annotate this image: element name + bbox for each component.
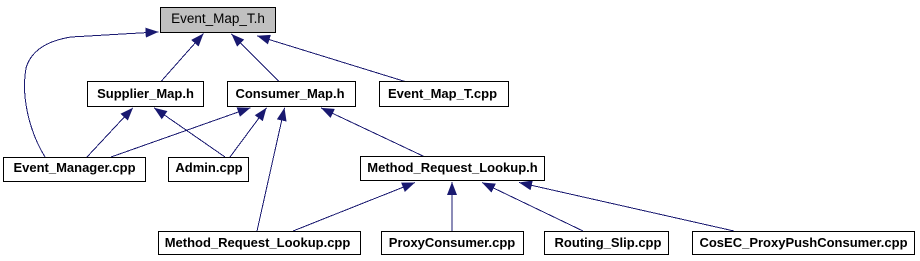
svg-text:Admin.cpp: Admin.cpp: [175, 160, 242, 175]
node ProxyConsumer.cpp: [382, 232, 524, 255]
node Method_Request_Lookup.h: [361, 157, 545, 181]
svg-text:Event_Map_T.cpp: Event_Map_T.cpp: [388, 86, 497, 101]
edge Consumer_Map.h -> Event_Map_T.h: [232, 34, 280, 82]
edge Supplier_Map.h -> Event_Map_T.h: [161, 34, 204, 82]
node Method_Request_Lookup.cpp: [159, 232, 361, 255]
svg-text:Consumer_Map.h: Consumer_Map.h: [235, 86, 344, 101]
node Consumer_Map.h: [228, 82, 356, 107]
edge Admin.cpp -> Supplier_Map.h: [154, 108, 225, 157]
edge Admin.cpp -> Consumer_Map.h: [230, 108, 267, 157]
edge Method_Request_Lookup.cpp -> Method_Request_Lookup.h: [293, 183, 415, 232]
node Routing_Slip.cpp: [545, 232, 669, 255]
edge Event_Map_T.cpp -> Event_Map_T.h: [257, 36, 405, 82]
node Event_Map_T.h: [161, 8, 276, 33]
svg-text:Method_Request_Lookup.h: Method_Request_Lookup.h: [367, 160, 538, 175]
node Event_Map_T.cpp: [380, 82, 509, 107]
node CosEC_ProxyPushConsumer.cpp: [693, 232, 915, 255]
svg-text:Supplier_Map.h: Supplier_Map.h: [97, 86, 194, 101]
edge Method_Request_Lookup.h -> Consumer_Map.h: [321, 108, 424, 157]
svg-text:Routing_Slip.cpp: Routing_Slip.cpp: [555, 235, 662, 250]
node Supplier_Map.h: [88, 82, 204, 107]
svg-text:Method_Request_Lookup.cpp: Method_Request_Lookup.cpp: [165, 235, 351, 250]
edge Method_Request_Lookup.cpp -> Consumer_Map.h: [257, 108, 285, 231]
edge Routing_Slip.cpp -> Method_Request_Lookup.h: [482, 183, 583, 232]
edge ProxyConsumer.cpp -> Method_Request_Lookup.h: [451, 182, 453, 231]
svg-text:Event_Map_T.h: Event_Map_T.h: [171, 11, 265, 26]
edge Event_Manager.cpp -> Event_Map_T.h (curved): [25, 32, 159, 157]
edge Event_Manager.cpp -> Supplier_Map.h: [87, 108, 133, 157]
svg-text:CosEC_ProxyPushConsumer.cpp: CosEC_ProxyPushConsumer.cpp: [699, 235, 907, 250]
svg-text:ProxyConsumer.cpp: ProxyConsumer.cpp: [389, 235, 515, 250]
edge CosEC_ProxyPushConsumer.cpp -> Method_Request_Lookup.h: [519, 183, 734, 232]
node Admin.cpp: [169, 158, 249, 182]
edge Event_Manager.cpp -> Consumer_Map.h: [111, 108, 251, 157]
svg-text:Event_Manager.cpp: Event_Manager.cpp: [13, 160, 135, 175]
node Event_Manager.cpp: [4, 158, 146, 182]
